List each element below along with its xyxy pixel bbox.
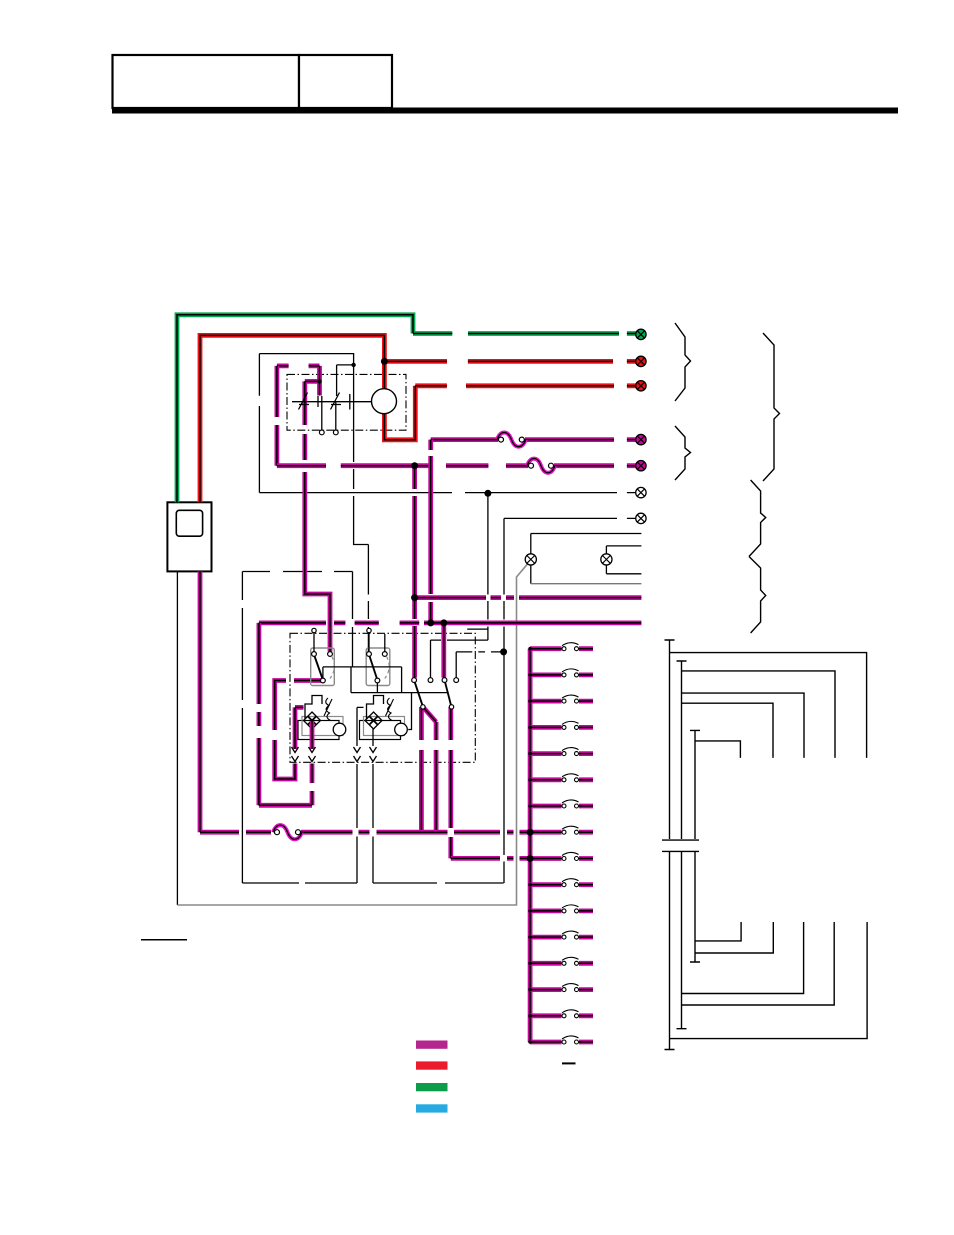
fuse FB15 bbox=[562, 1010, 579, 1018]
lamp L2 bbox=[601, 554, 612, 565]
wire park return H5 bbox=[451, 856, 530, 861]
connector red 2 bbox=[636, 381, 646, 391]
contact in relay 2 bbox=[367, 652, 372, 657]
ignition switch terminal drop 2 bbox=[335, 402, 337, 430]
junction ignition B bbox=[317, 379, 321, 383]
relay link upper bbox=[323, 667, 402, 678]
legend green bbox=[416, 1083, 448, 1091]
wire fuse bus bbox=[528, 649, 533, 1042]
harness branch t3 bbox=[682, 693, 805, 758]
wiper motor relay 1 bbox=[333, 723, 346, 736]
harness branch t2 bbox=[682, 671, 836, 758]
connector green bbox=[636, 329, 646, 339]
legend cyan bbox=[416, 1104, 448, 1112]
contact stub relay 1 bbox=[313, 632, 315, 652]
arrow wiper 1 bbox=[354, 747, 361, 762]
wire fuse rung 4 bbox=[530, 725, 593, 730]
wire lamp drop bbox=[530, 565, 532, 584]
wire ignition feed A drop bbox=[274, 366, 279, 466]
wire fuse rung 6 bbox=[530, 777, 593, 782]
diode bridge relay 2 bbox=[365, 712, 382, 729]
wire fuse rung 16 bbox=[530, 1040, 593, 1045]
wiper motor relay 2 bbox=[395, 723, 408, 736]
relay blade 2 bbox=[445, 682, 451, 705]
fuse FB10 bbox=[562, 879, 579, 887]
wire fuse rung 14 bbox=[530, 987, 593, 992]
wire lamp2 top bbox=[606, 546, 641, 554]
junction bus tee 12 bbox=[528, 935, 532, 939]
brace group 3 bbox=[763, 333, 780, 481]
contact bottom relay 2 bbox=[375, 678, 380, 683]
harness rail 1 bbox=[665, 640, 675, 1050]
wire connector line tail-lamp bbox=[259, 492, 636, 494]
wire wiper low speed column bbox=[419, 707, 424, 832]
relay contact 1 bbox=[412, 678, 417, 683]
wire wiper park column bbox=[448, 707, 453, 858]
junction H3/V3 bbox=[440, 619, 447, 626]
connector magenta 1 bbox=[636, 434, 646, 444]
junction ignition top bbox=[351, 363, 355, 367]
connector magenta 2 bbox=[636, 461, 646, 471]
junction bus tee 2 bbox=[528, 673, 532, 677]
ignition switch plates 1 bbox=[318, 396, 322, 407]
contact in relay 1 bbox=[312, 652, 317, 657]
fuse FB7 bbox=[562, 800, 579, 808]
wire column V1 bbox=[412, 466, 417, 678]
wire washer pump feed 2 bbox=[310, 721, 315, 749]
ignition switch plates 2 bbox=[350, 394, 354, 410]
wire relay column V3 bbox=[441, 623, 446, 678]
harness branch t4 bbox=[682, 703, 774, 758]
fuse FB5 bbox=[562, 748, 579, 756]
junction bus tee 16 bbox=[528, 1040, 532, 1044]
junction bus tee 14 bbox=[528, 988, 532, 992]
ignition switch wiper 2 bbox=[331, 393, 342, 410]
relay contact 2 bbox=[428, 678, 433, 683]
motor housing inner relay 2 bbox=[364, 717, 405, 736]
legend red bbox=[416, 1061, 448, 1069]
junction bus rung 8 bbox=[527, 829, 534, 836]
wire wiper high speed column bbox=[423, 707, 436, 832]
junction bus tee 4 bbox=[528, 726, 532, 730]
harness branch b1 bbox=[670, 922, 868, 1039]
fuse F3 bbox=[273, 825, 302, 839]
battery inner cell bbox=[176, 510, 202, 536]
motor housing inner relay 1 bbox=[302, 717, 343, 736]
relay link lower bbox=[351, 683, 449, 693]
wire lamp2 bottom bbox=[606, 565, 641, 574]
relay link to motor bbox=[408, 693, 411, 730]
brace group 2 bbox=[675, 426, 691, 480]
label underline bbox=[141, 939, 187, 941]
wire fuse rung 9 bbox=[530, 856, 593, 861]
wire washer pump feed 1 bbox=[295, 707, 304, 749]
ground tick bbox=[562, 1062, 576, 1064]
wire ground return grey bbox=[177, 564, 527, 905]
fuse FB4 bbox=[562, 721, 579, 729]
fuse FB16 bbox=[562, 1036, 579, 1044]
fuse FB9 bbox=[562, 852, 579, 860]
wire lamp circuit bottom bbox=[531, 583, 642, 585]
contact out relay 2 bbox=[382, 652, 387, 657]
wire ignition feed A bbox=[277, 366, 320, 382]
wire accessory line H1 bbox=[277, 463, 636, 468]
wire fuse rung 5 bbox=[530, 751, 593, 756]
wire lamp circuit top bbox=[531, 533, 642, 535]
relay blade 1 end bbox=[421, 705, 425, 709]
wire fuse rung 15 bbox=[530, 1013, 593, 1018]
ignition switch wiper 1 bbox=[299, 393, 310, 410]
junction bus rung 9 bbox=[527, 855, 534, 862]
wire connector line stop-lamp bbox=[504, 517, 636, 519]
arrow washer 1 bbox=[292, 747, 299, 762]
motor housing relay 1 bbox=[298, 721, 339, 740]
wire switch-box top edge bbox=[259, 354, 353, 365]
wire wiper out 1 bbox=[357, 707, 364, 746]
harness rail 3 bbox=[690, 730, 700, 962]
contact top relay 2 bbox=[367, 628, 371, 632]
wire battery ground lead bbox=[176, 571, 178, 905]
fuse FB6 bbox=[562, 774, 579, 782]
wire fuse rung 12 bbox=[530, 935, 593, 940]
wire lower loop bottom left bbox=[242, 882, 357, 884]
wire relay feed column bbox=[487, 493, 489, 640]
wiper switch body relay 1 bbox=[311, 648, 335, 686]
header title box left bbox=[113, 55, 300, 108]
junction H3/V2 bbox=[427, 619, 434, 626]
wire fuse rung 1 bbox=[530, 646, 593, 651]
harness branch b2 bbox=[682, 922, 835, 1005]
wire bus line H2 bbox=[415, 595, 642, 600]
connector red 1 bbox=[636, 356, 646, 366]
ignition switch terminal drop 1 bbox=[321, 407, 323, 430]
wire relay feed to contact bbox=[431, 640, 488, 678]
wire fuse rung 13 bbox=[530, 961, 593, 966]
wire washer loop inner bbox=[275, 681, 323, 780]
harness branch t5 bbox=[695, 741, 740, 758]
wire wiper motor drop 1 bbox=[356, 764, 358, 883]
relay link verticals bbox=[351, 667, 402, 693]
fuse FB1 bbox=[562, 643, 579, 651]
ignition switch box bbox=[287, 374, 406, 430]
junction bus tee 6 bbox=[528, 778, 532, 782]
wire bus line H3 bbox=[259, 621, 642, 626]
wire switch-box left edge bbox=[258, 354, 260, 493]
wire red main bbox=[200, 335, 636, 502]
battery box bbox=[167, 502, 211, 571]
junction red tee bbox=[381, 358, 388, 365]
blade arc relay 1 bbox=[330, 656, 334, 679]
header title box right bbox=[299, 55, 392, 108]
fuse FB8 bbox=[562, 826, 579, 834]
harness branch b5 bbox=[695, 922, 741, 941]
harness branch b3 bbox=[682, 922, 804, 994]
brace group 4a bbox=[749, 480, 766, 557]
wire fuse rung 3 bbox=[530, 699, 593, 704]
brace group 4b bbox=[749, 557, 766, 634]
wire green charge bbox=[177, 315, 636, 503]
harness break ticks bbox=[662, 840, 699, 851]
wire fuse rung 7 bbox=[530, 804, 593, 809]
junction bus tee 1 bbox=[528, 647, 532, 651]
wiper switch body relay 2 bbox=[366, 648, 390, 686]
wire ignition contact stub bbox=[317, 381, 322, 395]
junction bus tee 15 bbox=[528, 1014, 532, 1018]
junction bus tee 11 bbox=[528, 909, 532, 913]
junction bus tee 3 bbox=[528, 699, 532, 703]
fuse FB13 bbox=[562, 957, 579, 965]
diode bridge relay 1 bbox=[304, 712, 321, 729]
wiper relay box bbox=[290, 633, 475, 762]
fuse FB12 bbox=[562, 931, 579, 939]
breaker step relay 2 bbox=[367, 696, 384, 720]
wire battery feed H4 bbox=[200, 571, 530, 832]
contact stub relay2 out bbox=[384, 634, 386, 652]
header rule bar bbox=[112, 108, 898, 114]
wire fuse rung 11 bbox=[530, 909, 593, 914]
junction relay feed bbox=[484, 490, 491, 497]
wire fuse line F1 bbox=[431, 437, 636, 442]
harness rail 2 bbox=[677, 661, 687, 1029]
contact bottom relay 1 bbox=[321, 678, 326, 683]
fuse FB2 bbox=[562, 669, 579, 677]
ignition terminal 2 bbox=[333, 430, 338, 435]
fuse FB11 bbox=[562, 905, 579, 913]
wire ignition feed B bbox=[305, 381, 330, 651]
junction H1/V1 bbox=[411, 462, 418, 469]
ignition terminal 1 bbox=[319, 430, 324, 435]
contact stub relay 2 bbox=[368, 632, 370, 652]
wire washer loop outer bbox=[259, 623, 312, 805]
wire wiper out 2 bbox=[372, 729, 374, 746]
wire lower loop bottom right bbox=[373, 882, 504, 884]
relay blade 1 bbox=[415, 682, 423, 705]
wire fuse column V2 bbox=[428, 440, 433, 623]
lamp L1 bbox=[525, 554, 536, 565]
breaker step relay 1 bbox=[305, 696, 322, 720]
junction bus tee 13 bbox=[528, 962, 532, 966]
wire lamp riser bbox=[530, 534, 532, 554]
wire fuse rung 10 bbox=[530, 882, 593, 887]
legend magenta bbox=[416, 1041, 448, 1049]
breaker zigzag relay 1 bbox=[324, 698, 332, 721]
breaker zigzag relay 2 bbox=[386, 698, 394, 721]
wire ignition column bbox=[354, 365, 369, 652]
arrow wiper 2 bbox=[370, 747, 377, 762]
wire fuse rung 2 bbox=[530, 673, 593, 678]
junction bus tee 7 bbox=[528, 804, 532, 808]
junction bus tee 5 bbox=[528, 752, 532, 756]
fuse F2 bbox=[527, 459, 555, 473]
relay contact 4 bbox=[454, 678, 459, 683]
motor housing relay 2 bbox=[360, 721, 401, 740]
switch blade relay 2 bbox=[370, 656, 377, 679]
fuse FB14 bbox=[562, 984, 579, 992]
fuse F1 bbox=[497, 432, 526, 446]
wire wiper motor drop 2 bbox=[372, 764, 374, 883]
ignition switch common line bbox=[292, 401, 371, 403]
brace group 1 bbox=[675, 323, 691, 401]
wire lower loop left bbox=[242, 572, 352, 884]
ignition key circle bbox=[372, 389, 397, 414]
switch blade relay 1 bbox=[315, 656, 323, 679]
wire fuse-bus feed column bbox=[503, 518, 505, 883]
relay blade 2 end bbox=[449, 705, 453, 709]
fuse FB3 bbox=[562, 695, 579, 703]
connector white 2 bbox=[636, 513, 646, 523]
contact out relay 1 bbox=[328, 652, 333, 657]
connector white 1 bbox=[636, 487, 646, 497]
arrow washer 2 bbox=[309, 747, 316, 762]
harness branch t1 bbox=[670, 653, 867, 758]
contact top relay 1 bbox=[312, 628, 316, 632]
relay contact 3 bbox=[442, 678, 447, 683]
harness branch b4 bbox=[695, 922, 773, 953]
wire short link bbox=[467, 628, 487, 630]
junction bus feed bbox=[500, 648, 507, 655]
wire fuse rung 8 bbox=[530, 830, 593, 835]
wire ignition contact branch bbox=[337, 365, 354, 396]
wire red branch bbox=[384, 359, 636, 364]
wire relay contact to bus bbox=[456, 652, 503, 678]
junction bus tee 10 bbox=[528, 883, 532, 887]
wire lower loop column bbox=[352, 572, 354, 667]
junction H2/V1 bbox=[411, 594, 418, 601]
blade arc relay 2 bbox=[385, 656, 389, 679]
